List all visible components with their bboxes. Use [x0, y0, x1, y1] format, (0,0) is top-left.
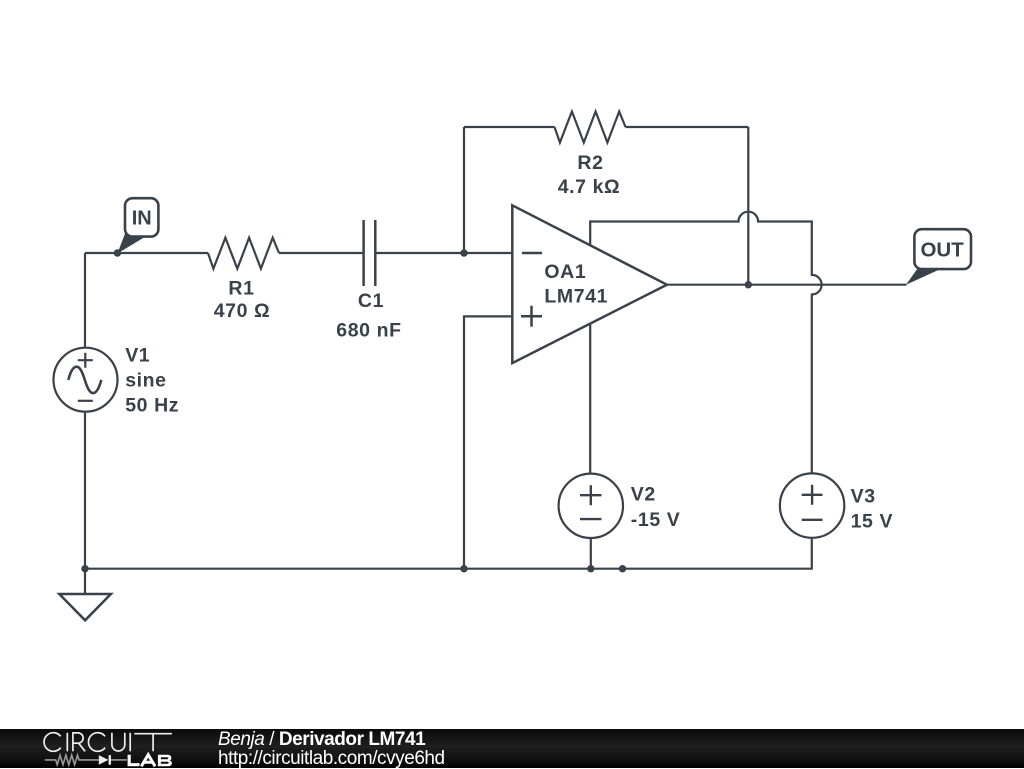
node junction dot IN: [114, 249, 121, 256]
logo letter T: [134, 734, 172, 752]
logo LAB letter B: [158, 755, 172, 767]
logo letter R: [73, 733, 85, 751]
wire op-amp plus input to ground bus: [464, 316, 511, 568]
V3 minus sign: [802, 519, 823, 521]
svg-text:C1: C1: [358, 290, 384, 312]
op-amp plus symbol: [521, 306, 542, 327]
svg-text:R1: R1: [228, 278, 254, 300]
svg-text:470 Ω: 470 Ω: [214, 300, 271, 322]
capacitor C1: [364, 220, 376, 286]
logo letter U: [112, 733, 125, 751]
node junction dot output/feedback: [745, 281, 752, 288]
wire V2 bottom: [590, 538, 592, 569]
flag OUT: [906, 269, 940, 284]
wire V1 top: [84, 253, 86, 348]
resistor R1: [208, 238, 279, 269]
node junction dot plus input at bus: [460, 565, 467, 572]
wire feedback drop to output: [747, 127, 749, 285]
footer caption: [218, 730, 445, 769]
logo LAB letter A: [141, 755, 155, 767]
source V1: [54, 348, 118, 412]
logo LAB letter L: [129, 755, 139, 765]
wire R1 to C1: [279, 252, 362, 254]
V1 sine symbol: [68, 367, 101, 393]
resistor R2: [555, 112, 626, 143]
wire IN node to R1: [85, 252, 208, 254]
wire feedback riser: [463, 127, 465, 253]
node junction dot feedback/minus: [460, 249, 467, 256]
wire feedback top left: [464, 126, 555, 128]
logo letter I: [66, 733, 68, 752]
svg-text:LM741: LM741: [544, 286, 608, 308]
source V2: [559, 474, 623, 538]
svg-text:680 nF: 680 nF: [336, 320, 401, 342]
wire C1 to op-amp minus input: [375, 252, 511, 254]
node junction dot V2 at bus: [587, 565, 594, 572]
logo letter C: [44, 733, 61, 752]
svg-text:OUT: OUT: [920, 238, 964, 261]
wire ground stub: [84, 569, 86, 594]
svg-text:V2: V2: [631, 484, 656, 506]
node junction dot bus extra: [619, 565, 626, 572]
V2 plus sign: [580, 485, 602, 505]
flag IN: [117, 232, 146, 254]
wire V+ supply with hops: [590, 212, 821, 474]
CircuitLab logo: [0, 0, 200, 768]
wire feedback top right: [626, 126, 749, 128]
node junction dot ground corner: [81, 565, 88, 572]
svg-text:OA1: OA1: [544, 261, 586, 283]
wire op-amp output to OUT: [667, 284, 907, 286]
ground: [59, 594, 111, 620]
wire V- supply stub: [589, 325, 591, 474]
V3 plus sign: [802, 485, 823, 505]
V1 plus sign: [78, 353, 93, 368]
V2 minus sign: [580, 518, 602, 520]
svg-text:4.7 kΩ: 4.7 kΩ: [558, 176, 621, 198]
op-amp minus symbol: [522, 252, 542, 255]
svg-text:15 V: 15 V: [851, 511, 894, 533]
wire V1 bottom to ground bus: [84, 412, 86, 569]
wire ground bus: [85, 538, 812, 569]
logo resistor squiggle: [45, 755, 99, 765]
logo letter I: [129, 733, 131, 752]
op-amp OA1: [512, 205, 667, 363]
svg-text:V3: V3: [851, 486, 876, 508]
svg-text:-15 V: -15 V: [631, 509, 681, 531]
logo letter C: [88, 733, 105, 752]
source V3: [780, 473, 844, 537]
V1 minus sign: [78, 400, 93, 402]
svg-text:R2: R2: [577, 152, 603, 174]
footer bar: [0, 729, 1024, 768]
logo diode: [99, 755, 109, 765]
